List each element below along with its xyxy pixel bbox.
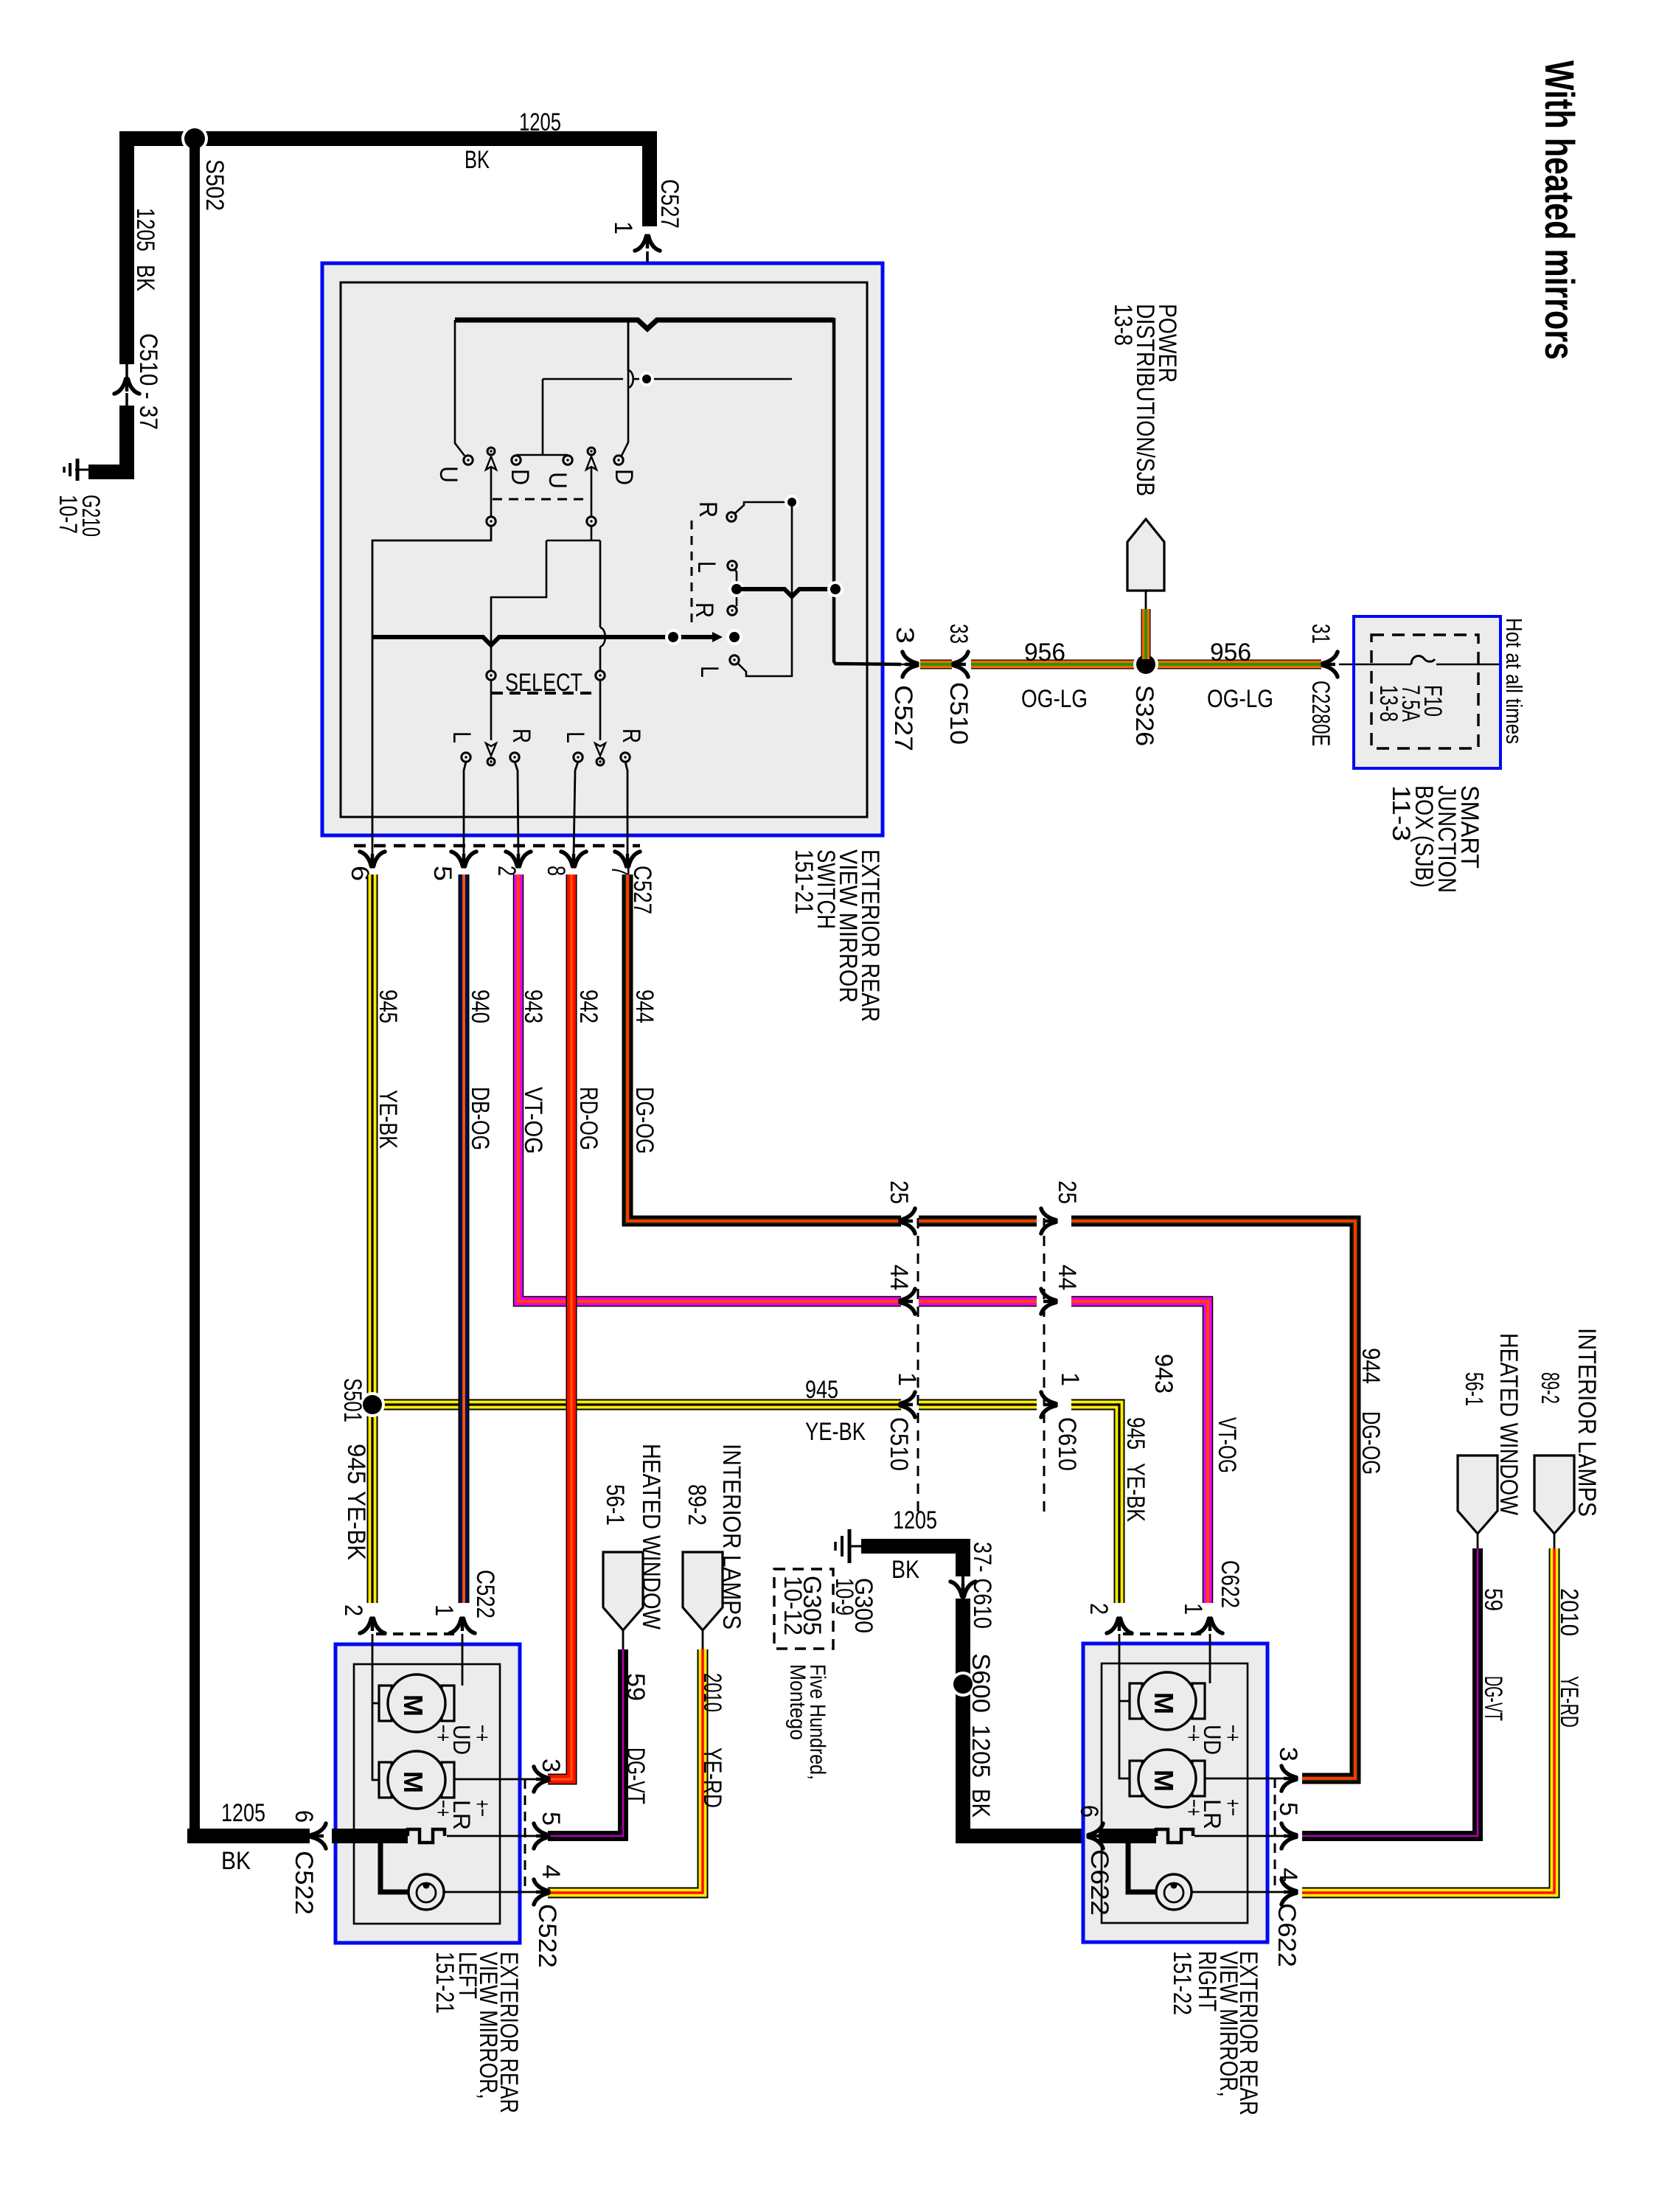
svg-text:25: 25: [885, 1180, 913, 1204]
svg-text:1: 1: [430, 1604, 458, 1616]
wire 1205 BK down to right mirror pin 6: [963, 1599, 1082, 1836]
pentagon INTERIOR LAMPS (right): [1534, 1455, 1574, 1534]
svg-text:HEATED WINDOW: HEATED WINDOW: [637, 1444, 665, 1630]
svg-text:INTERIOR LAMPS: INTERIOR LAMPS: [717, 1444, 745, 1630]
svg-text:−+: −+: [1181, 1725, 1207, 1742]
svg-text:C622: C622: [1216, 1560, 1244, 1608]
splice S326: [1133, 652, 1158, 677]
svg-text:DG-VT: DG-VT: [1479, 1676, 1507, 1721]
svg-text:R: R: [507, 728, 535, 743]
svg-text:5: 5: [1274, 1802, 1302, 1816]
svg-text:S326: S326: [1130, 685, 1158, 746]
svg-text:L: L: [448, 731, 476, 743]
svg-text:YE-BK: YE-BK: [342, 1491, 370, 1560]
wire 945 YE-BK left vertical: [367, 874, 378, 1603]
svg-text:59: 59: [622, 1673, 650, 1701]
left mirror connector dashes: [376, 1632, 460, 1635]
right mirror pin6 arrow: [1087, 1823, 1103, 1848]
arrows on 945: [899, 1392, 915, 1417]
SJB dashed fuse box: [1371, 635, 1478, 748]
svg-text:11-3: 11-3: [1387, 785, 1415, 841]
left mirror pin1 arrow and line: [450, 1617, 475, 1633]
svg-text:D: D: [506, 469, 534, 485]
switch: actuator arrow 1: [486, 456, 496, 470]
right mirror heater element: [1099, 1829, 1156, 1843]
svg-text:C510: C510: [885, 1417, 913, 1471]
switch: actuator arrow 1 top contact: [487, 448, 495, 455]
svg-text:R: R: [690, 602, 718, 618]
svg-text:U: U: [543, 472, 571, 489]
svg-text:BK: BK: [131, 265, 159, 291]
svg-text:6: 6: [290, 1810, 318, 1823]
connector C527 pin 1 arrow: [635, 234, 660, 251]
ground symbol G210: [75, 469, 94, 471]
connector dash line C610: [1043, 1218, 1046, 1519]
splice S600: [950, 1672, 975, 1697]
svg-text:L: L: [561, 731, 589, 743]
wire 940 DB-OG: [459, 874, 470, 1603]
right mirror motor LR: [1130, 1761, 1142, 1796]
svg-text:944: 944: [630, 990, 658, 1023]
svg-text:S501: S501: [338, 1378, 366, 1422]
svg-text:2010: 2010: [1555, 1588, 1583, 1636]
svg-text:2: 2: [1085, 1603, 1113, 1615]
switch: crossover arc at (852,514): [628, 370, 633, 388]
fuse F10 symbol: [1355, 664, 1411, 666]
switch pin arrow: [451, 852, 476, 868]
svg-text:S502: S502: [201, 159, 229, 211]
select-right: L/R mid contacts: [728, 561, 737, 570]
left mirror pin6 arrow: [310, 1823, 326, 1848]
svg-text:3: 3: [891, 627, 919, 644]
svg-text:HEATED WINDOW: HEATED WINDOW: [1495, 1333, 1523, 1515]
svg-text:−+: −+: [431, 1800, 456, 1817]
svg-text:945: 945: [342, 1444, 370, 1484]
wire 1205 BK drop to C527 pin 1: [642, 131, 657, 226]
svg-text:3: 3: [1274, 1747, 1302, 1761]
svg-text:VT-OG: VT-OG: [519, 1087, 547, 1154]
svg-text:5: 5: [537, 1812, 565, 1826]
switch pin arrow: [615, 852, 640, 868]
svg-text:5: 5: [428, 866, 456, 881]
svg-text:10-7: 10-7: [54, 495, 82, 534]
svg-text:1205: 1205: [893, 1506, 937, 1534]
svg-text:R: R: [617, 728, 645, 743]
svg-text:C510 - 37: C510 - 37: [134, 333, 162, 430]
svg-text:DG-OG: DG-OG: [1357, 1411, 1385, 1475]
svg-text:BK: BK: [465, 146, 490, 174]
right mirror pin3 line and arrow: [1205, 1778, 1287, 1780]
svg-text:44: 44: [885, 1265, 913, 1290]
splice S501: [360, 1392, 385, 1417]
bottom contacts L R L R: [462, 753, 470, 762]
svg-text:56-1: 56-1: [1460, 1372, 1488, 1406]
svg-text:943: 943: [1150, 1354, 1178, 1394]
svg-text:1: 1: [893, 1372, 921, 1386]
svg-text:943: 943: [519, 990, 547, 1023]
left mirror pin2 arrow and line: [360, 1617, 385, 1633]
wire 943 VT-OG middle and right segments: [919, 1296, 1037, 1307]
switch: actuator arrow 2 top contact: [588, 448, 595, 455]
connector C2280E pin31 arrow: [1321, 652, 1338, 677]
connector C610 pin37 arrow: [950, 1582, 975, 1598]
right mirror pin2 arrow and line: [1107, 1617, 1132, 1633]
left mirror motor UD: [379, 1686, 392, 1721]
wire 945 YE-BK middle and right segments: [919, 1399, 1037, 1411]
svg-text:YE-BK: YE-BK: [805, 1418, 866, 1446]
wire 59 DG-VT (left): [548, 1649, 623, 1836]
svg-text:M: M: [398, 1694, 428, 1717]
svg-text:37- C610: 37- C610: [968, 1542, 996, 1629]
switch: pin1 distribution line y=514 with hop: [543, 378, 792, 380]
svg-text:1: 1: [1179, 1603, 1207, 1615]
left mirror heater element: [332, 1829, 408, 1843]
switch: U1 blade feed: [455, 320, 465, 456]
connector C510 pin33 arrow: [952, 652, 968, 677]
switch: SELECT contacts: [487, 671, 495, 680]
svg-text:2010: 2010: [698, 1673, 726, 1712]
svg-text:S600: S600: [967, 1653, 995, 1713]
switch box inner rect: [341, 282, 867, 817]
svg-text:2: 2: [339, 1604, 367, 1616]
right mirror lamp + feed: [1128, 1836, 1155, 1892]
switch pin arrow: [561, 852, 586, 868]
select underline dashes: [492, 692, 594, 695]
switch: select right vertical with arc over bus: [600, 540, 605, 672]
svg-text:1205: 1205: [967, 1725, 995, 1778]
wire 2010 YE-RD (left): [548, 1649, 703, 1893]
svg-text:R: R: [694, 501, 722, 518]
wire 944 DG-OG middle and right segments: [919, 1216, 1037, 1227]
svg-text:4: 4: [537, 1865, 565, 1879]
right mirror box EXTERIOR REAR VIEW MIRROR RIGHT: [1083, 1644, 1267, 1942]
svg-text:BK: BK: [967, 1789, 995, 1818]
wire 59 DG-VT (right): [1302, 1548, 1478, 1836]
ground symbol G300: [850, 1545, 861, 1548]
svg-text:Hot at all times: Hot at all times: [1501, 618, 1527, 744]
svg-text:940: 940: [466, 990, 494, 1023]
svg-text:3: 3: [537, 1759, 565, 1773]
switch: arrow1 lower contact: [487, 517, 495, 526]
switch: thick ground bus y=864 with dip at x=666: [372, 637, 714, 645]
switch: D2 blade from crossover line: [622, 321, 628, 456]
svg-text:M: M: [1149, 1692, 1179, 1714]
svg-text:956: 956: [1210, 639, 1251, 667]
svg-text:59: 59: [1479, 1588, 1507, 1611]
SJB box (blue): [1354, 616, 1500, 768]
svg-text:DB-OG: DB-OG: [466, 1087, 494, 1150]
svg-text:89-2: 89-2: [683, 1484, 711, 1526]
junction dot bus864: [665, 629, 681, 645]
switch: D2 contact: [614, 456, 623, 465]
svg-text:U: U: [434, 466, 462, 483]
svg-text:Montego: Montego: [785, 1664, 810, 1740]
svg-text:6: 6: [1075, 1805, 1103, 1818]
wire 943 VT-OG vertical + run right: [518, 874, 901, 1301]
connector dash line C510: [917, 1218, 919, 1519]
arrows on 944 at C510/C610: [899, 1208, 915, 1234]
svg-text:942: 942: [574, 990, 602, 1023]
wire 945 YE-BK horizontal from S501: [372, 1399, 901, 1411]
svg-text:−+: −+: [1181, 1799, 1207, 1816]
svg-text:M: M: [398, 1771, 428, 1793]
svg-text:RD-OG: RD-OG: [574, 1087, 602, 1150]
svg-text:RIGHT: RIGHT: [1193, 1951, 1221, 2011]
svg-text:D: D: [610, 469, 638, 485]
switch: D1 contact: [512, 456, 521, 465]
switch: U1 contact: [464, 456, 473, 465]
pentagon HEATED WINDOW (left): [603, 1552, 643, 1630]
svg-text:13-8: 13-8: [1374, 685, 1402, 722]
svg-text:YE-RD: YE-RD: [698, 1747, 726, 1808]
switch: D1-U2 tie bus and feed: [516, 379, 568, 455]
wire 944 DG-OG vertical + run right: [627, 874, 901, 1221]
svg-text:C610: C610: [1053, 1417, 1081, 1471]
svg-text:DG-VT: DG-VT: [622, 1747, 650, 1804]
wire 956 OG-LG vertical from pentagon: [1141, 609, 1151, 659]
select down arrow left: [490, 680, 493, 740]
svg-text:C522: C522: [533, 1904, 561, 1968]
arrows on 943: [899, 1289, 915, 1314]
switch pin arrow: [360, 852, 385, 868]
svg-text:945: 945: [805, 1376, 838, 1404]
connector C527 pin 3 arrow: [902, 652, 919, 677]
bottom contact tails to pins: [464, 762, 466, 855]
switch: ground chain from arrow1 lower contact to pin 6: [372, 526, 491, 855]
svg-text:OG-LG: OG-LG: [1207, 685, 1273, 713]
svg-text:C527: C527: [655, 179, 684, 229]
svg-text:1205: 1205: [221, 1799, 265, 1827]
wire pin1 into switch: [646, 251, 649, 379]
svg-text:31: 31: [1307, 624, 1335, 644]
svg-text:YE-BK: YE-BK: [1121, 1463, 1150, 1522]
svg-text:1205: 1205: [519, 108, 561, 136]
wire 956 OG-LG stub: [920, 660, 952, 669]
svg-text:DG-OG: DG-OG: [630, 1087, 658, 1154]
svg-text:L: L: [695, 666, 723, 678]
wire 2010 YE-RD (right): [1302, 1548, 1554, 1893]
left mirror lamp + feed: [380, 1836, 408, 1892]
right mirror connector dashes: [1123, 1632, 1208, 1635]
right mirror pin1 arrow and line: [1197, 1617, 1222, 1633]
wire 1205 BK left vertical to C510: [119, 131, 134, 364]
svg-text:C622: C622: [1273, 1903, 1301, 1967]
select thick output y=799 with dip at 1074: [737, 589, 835, 597]
wire 1205 BK S502 long drop to left mirror pin 6: [195, 131, 310, 1836]
right mirror motor UD: [1130, 1683, 1142, 1719]
svg-text:C522: C522: [290, 1851, 318, 1915]
svg-text:With heated mirrors: With heated mirrors: [1537, 60, 1583, 360]
switch: U2 contact: [563, 456, 572, 465]
svg-text:13-8: 13-8: [1109, 304, 1137, 346]
svg-text:OG-LG: OG-LG: [1021, 685, 1088, 713]
switch: actuator arrow 2: [586, 456, 597, 470]
svg-text:1: 1: [1056, 1372, 1084, 1386]
svg-text:44: 44: [1053, 1265, 1081, 1290]
wire 1205 BK to ground G210: [88, 406, 127, 472]
connector dash line C527 (switch bottom): [354, 844, 640, 848]
svg-text:89-2: 89-2: [1536, 1372, 1564, 1404]
svg-text:YE-BK: YE-BK: [374, 1090, 402, 1149]
svg-text:C527: C527: [889, 685, 917, 751]
svg-text:56-1: 56-1: [601, 1484, 629, 1526]
bus864 wiper arrowhead: [712, 632, 723, 642]
wire 1205 BK from G300: [861, 1546, 963, 1576]
pentagon INTERIOR LAMPS (left): [683, 1552, 723, 1630]
redraw verticals over yellow crossing: [459, 1386, 470, 1423]
switch: mech link dashes U/D: [493, 498, 590, 501]
switch box outer (blue): [322, 263, 883, 835]
select-right: L bottom blade: [730, 655, 739, 664]
left mirror pin3 line and arrow: [454, 1778, 539, 1781]
svg-text:945: 945: [1121, 1417, 1150, 1450]
svg-text:BK: BK: [891, 1556, 919, 1584]
svg-text:945: 945: [374, 990, 402, 1023]
svg-text:VT-OG: VT-OG: [1213, 1417, 1241, 1473]
svg-text:INTERIOR LAMPS: INTERIOR LAMPS: [1573, 1328, 1601, 1517]
wire 1205 BK top horizontal: [121, 131, 650, 146]
svg-text:151-21: 151-21: [431, 1952, 459, 2014]
pentagon HEATED WINDOW (right): [1458, 1455, 1498, 1534]
svg-text:C510: C510: [945, 682, 973, 745]
svg-text:8: 8: [542, 866, 570, 876]
svg-text:1205: 1205: [131, 208, 159, 251]
splice S502: [181, 125, 208, 152]
svg-text:BK: BK: [221, 1847, 251, 1875]
switch: thick top bus y=434 with crossover dip at C527 wire: [455, 320, 834, 329]
svg-text:25: 25: [1053, 1180, 1081, 1204]
svg-text:151-21: 151-21: [790, 849, 818, 914]
switch: arrow2 lower contact to select-right feed: [491, 526, 600, 672]
switch: arrow2 lower contact: [587, 517, 596, 526]
switch: right vertical x=1131 to pin 3: [834, 318, 901, 664]
select-right: R top blade: [727, 512, 736, 521]
svg-text:C522: C522: [471, 1570, 499, 1618]
left mirror motor LR: [379, 1762, 392, 1798]
G305 dashed box: [774, 1569, 833, 1649]
switch pin arrow: [506, 852, 531, 868]
svg-text:YE-RD: YE-RD: [1555, 1676, 1583, 1728]
left mirror box EXTERIOR REAR VIEW MIRROR LEFT: [335, 1644, 520, 1943]
svg-text:2: 2: [493, 866, 521, 876]
connector C510-37 arrow: [125, 364, 128, 407]
wire 956 OG-LG left segment: [971, 660, 1321, 669]
svg-text:10-12: 10-12: [779, 1576, 807, 1635]
svg-text:151-22: 151-22: [1168, 1951, 1196, 2015]
svg-text:944: 944: [1357, 1348, 1385, 1384]
select-right: dashed link: [691, 521, 693, 628]
pentagon POWER DISTRIBUTION/SJB: [1127, 519, 1164, 591]
wire 942 RD-OG: [548, 874, 571, 1779]
svg-text:C2280E: C2280E: [1307, 681, 1335, 746]
svg-text:C622: C622: [1085, 1849, 1113, 1916]
svg-text:L: L: [692, 561, 720, 573]
svg-text:1: 1: [609, 221, 637, 234]
svg-text:−+: −+: [431, 1725, 456, 1742]
select down arrow right: [599, 680, 602, 740]
svg-text:33: 33: [945, 624, 973, 644]
svg-text:956: 956: [1024, 639, 1065, 667]
svg-text:4: 4: [1274, 1868, 1302, 1882]
svg-text:M: M: [1149, 1770, 1179, 1792]
junction dot pin1/line514: [639, 372, 654, 386]
